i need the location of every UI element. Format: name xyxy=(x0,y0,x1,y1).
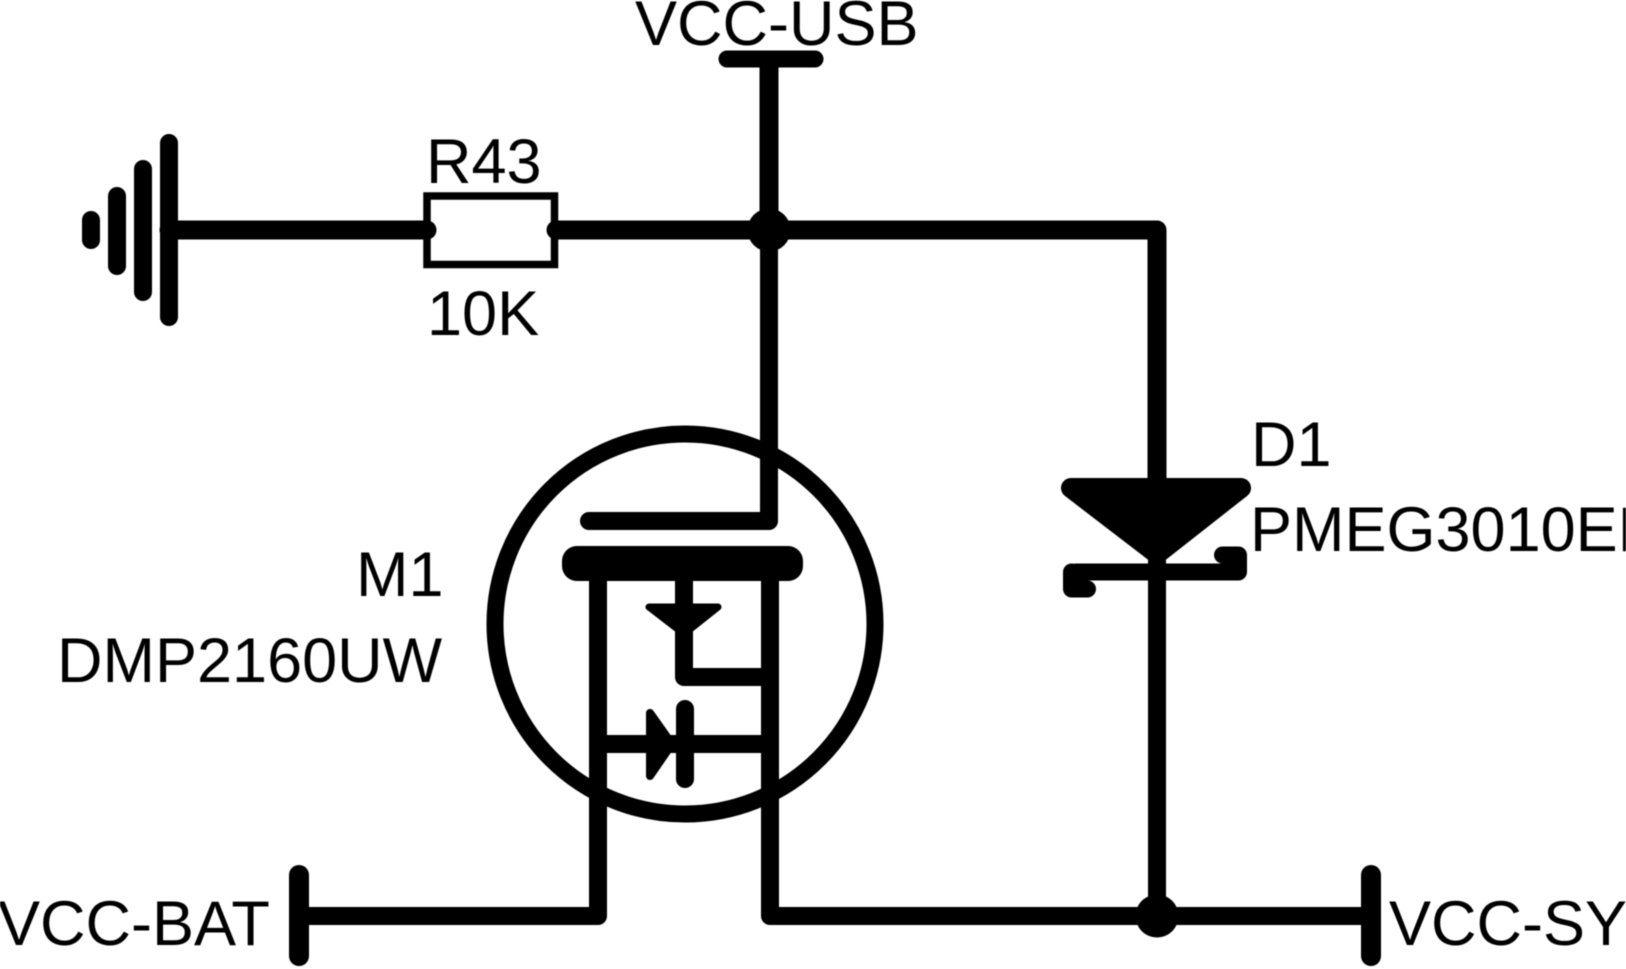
svg-text:10K: 10K xyxy=(427,279,539,349)
svg-text:DMP2160UW: DMP2160UW xyxy=(57,626,443,696)
ground symbol xyxy=(91,143,169,317)
transistor M1 xyxy=(495,434,875,814)
wire M1 source to VCC-SY rail xyxy=(770,581,1365,916)
diode D1 xyxy=(1071,488,1241,589)
wire ground to R43 xyxy=(169,221,427,240)
resistor R43 xyxy=(427,196,555,265)
svg-text:VCC-BAT: VCC-BAT xyxy=(0,889,270,959)
junction node on VCC-SY rail xyxy=(1136,895,1179,938)
wire junction to D1 anode xyxy=(769,230,1157,490)
wire D1 cathode to rail xyxy=(1148,560,1166,916)
svg-text:VCC-USB: VCC-USB xyxy=(635,0,919,59)
svg-text:R43: R43 xyxy=(426,127,542,197)
wire VCC-USB stem to junction xyxy=(760,59,779,230)
port pin VCC-BAT xyxy=(289,875,309,956)
wire M1 drain to VCC-BAT xyxy=(305,581,598,916)
power symbol VCC-USB xyxy=(727,51,815,68)
svg-text:VCC-SY: VCC-SY xyxy=(1389,889,1626,959)
svg-text:D1: D1 xyxy=(1251,410,1332,480)
wire R43 to junction xyxy=(556,221,769,240)
port pin VCC-SY xyxy=(1361,875,1381,956)
junction node at gate/VCC-USB xyxy=(748,209,791,252)
wire junction to M1 gate xyxy=(589,230,769,521)
svg-text:PMEG3010EH: PMEG3010EH xyxy=(1250,495,1626,565)
svg-text:M1: M1 xyxy=(356,540,444,610)
